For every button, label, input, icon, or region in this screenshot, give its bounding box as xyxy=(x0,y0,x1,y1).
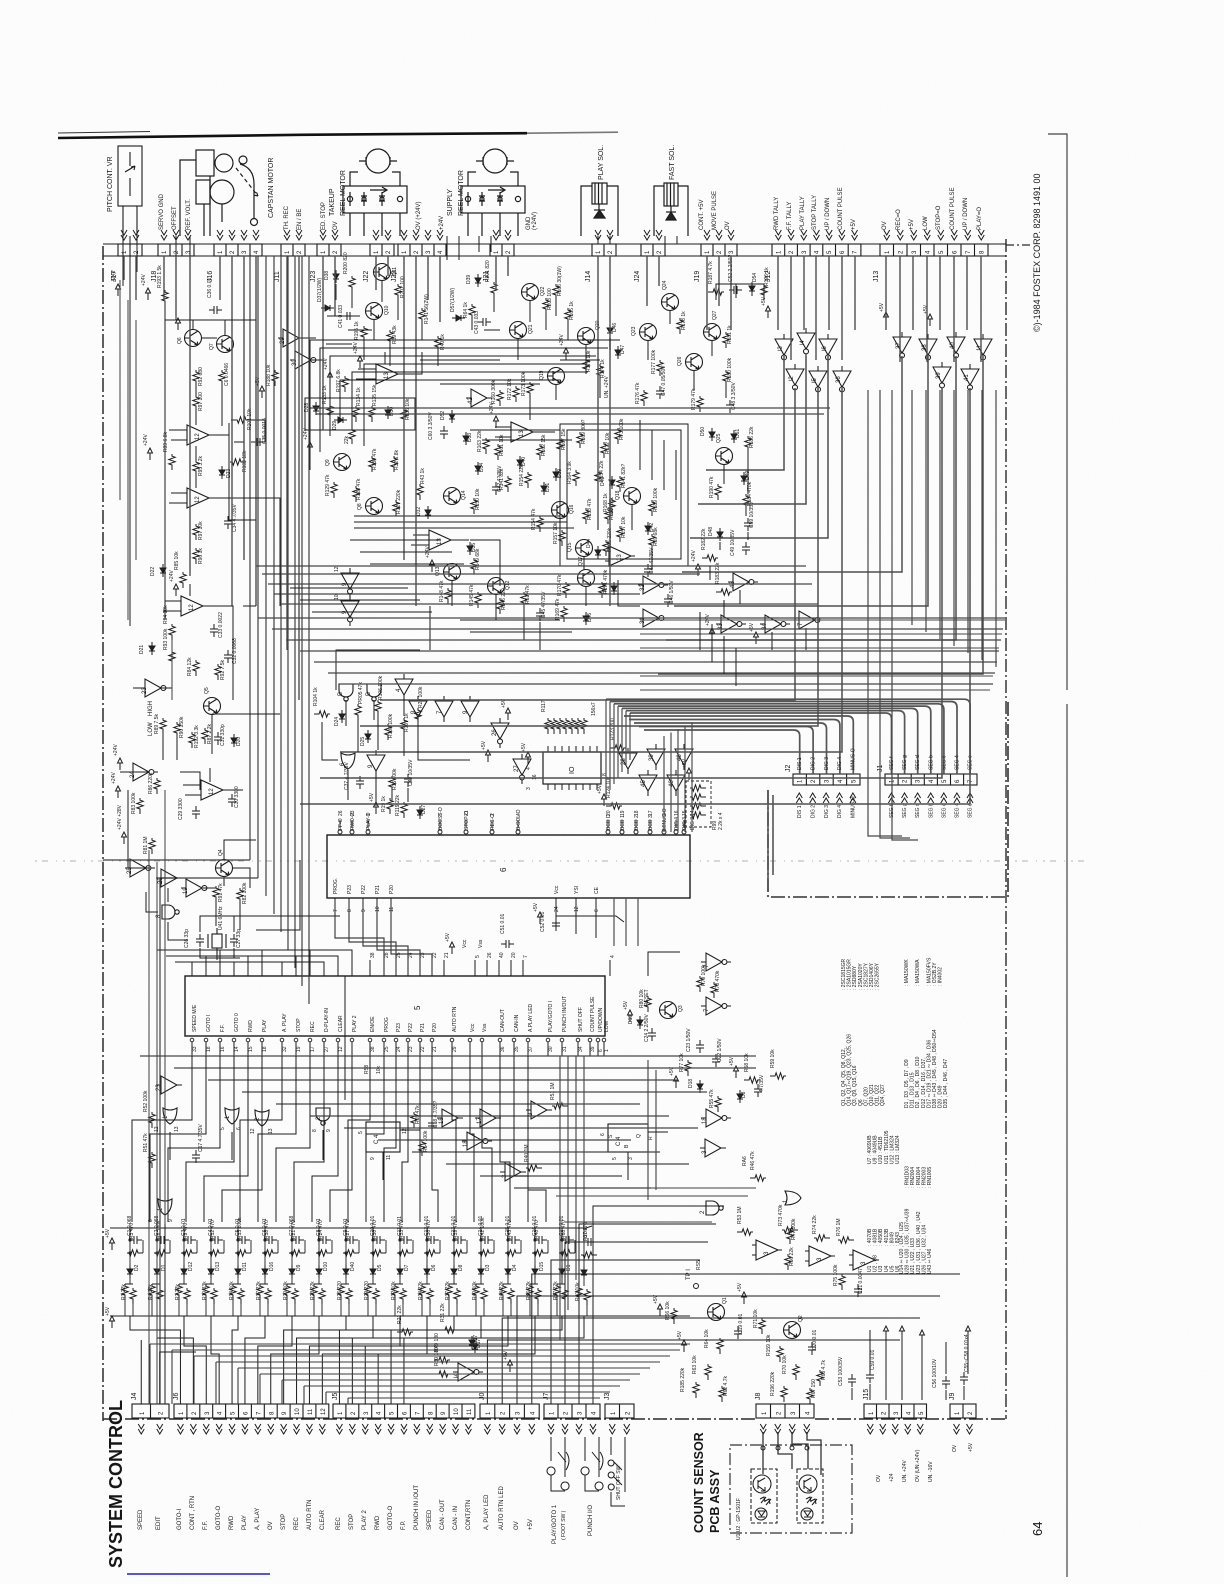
wire xyxy=(351,1042,353,1056)
wire IC pin xyxy=(561,746,563,752)
wire hband xyxy=(242,1091,707,1093)
svg-text:F.F. TALLY: F.F. TALLY xyxy=(787,202,793,230)
resistor R172 10k xyxy=(513,386,519,402)
connector J9 pin 1 arrow xyxy=(954,1424,960,1434)
resistor R44 22k a xyxy=(500,1284,506,1300)
wire seg feed xyxy=(629,713,631,760)
wire array-conn xyxy=(184,1316,206,1404)
wire xyxy=(383,1042,385,1056)
connector J7 pin 2 arrow xyxy=(562,1424,568,1434)
resistor R10 33k a xyxy=(203,1284,209,1300)
or gate U1c xyxy=(785,1191,801,1205)
svg-text:+5V: +5V xyxy=(445,932,451,942)
wire column xyxy=(557,1228,575,1316)
wire xyxy=(224,840,256,860)
svg-text:R170 47k: R170 47k xyxy=(557,574,563,596)
svg-text:15: 15 xyxy=(248,1046,254,1052)
wire spine xyxy=(265,256,267,896)
svg-text:R179 47k: R179 47k xyxy=(691,388,697,410)
wire tally xyxy=(706,356,784,470)
resistor R157 10k xyxy=(559,530,565,546)
wire xyxy=(351,820,353,828)
wire drop xyxy=(706,256,708,330)
connector J0 pin 1 arrow xyxy=(484,1424,490,1434)
svg-text:PUNCH IN/OUT: PUNCH IN/OUT xyxy=(562,996,568,1032)
svg-text:C43 0.033: C43 0.033 xyxy=(474,311,480,334)
resistor R127 220k xyxy=(393,500,399,516)
buffer U3c xyxy=(500,1163,526,1181)
svg-text:40: 40 xyxy=(950,342,956,349)
svg-text:FF-O: FF-O xyxy=(338,818,344,830)
connector J14 xyxy=(592,244,616,256)
svg-text:Q23: Q23 xyxy=(631,326,637,336)
diode D29 xyxy=(334,417,347,423)
svg-text:5: 5 xyxy=(220,1127,226,1130)
wire drop xyxy=(189,256,191,576)
power arrow xyxy=(966,1326,971,1338)
buffer U40 xyxy=(947,332,965,362)
svg-text:PROG: PROG xyxy=(384,1017,390,1032)
connector J21 pin 1 arrow xyxy=(493,230,499,240)
svg-text:+24V: +24V xyxy=(439,216,445,230)
wire xyxy=(437,352,439,366)
svg-text:6: 6 xyxy=(600,1133,606,1136)
wire IC pin xyxy=(582,784,584,790)
wire xyxy=(334,898,336,916)
connector J7 pin 1 arrow xyxy=(548,1424,554,1434)
capacitor C33 0.0022 (PPE) xyxy=(210,624,218,637)
svg-text:: RN1005: : RN1005 xyxy=(927,1167,933,1188)
svg-text:23: 23 xyxy=(408,1046,414,1052)
svg-text:PLAY 2: PLAY 2 xyxy=(362,1510,368,1530)
svg-text:D46: D46 xyxy=(612,323,618,332)
svg-text:R63 10k: R63 10k xyxy=(692,1355,698,1374)
capacitor C30 3300 xyxy=(228,794,236,807)
svg-text:R81 1M: R81 1M xyxy=(143,836,149,854)
wire xyxy=(363,342,365,360)
svg-text:AUTO RTN: AUTO RTN xyxy=(452,1006,458,1032)
wire drop xyxy=(646,256,648,306)
resistor R64 10k xyxy=(717,1338,723,1354)
connector J13 pin 4 arrow xyxy=(924,230,930,240)
wire cpu-array xyxy=(500,1056,510,1222)
wire ff xyxy=(383,1130,668,1180)
wire lcv xyxy=(127,300,129,620)
resistor C6 0.0466 xyxy=(219,370,225,386)
svg-text:25: 25 xyxy=(396,952,402,958)
resistor R47 22k a xyxy=(554,1284,560,1300)
svg-text:C 4: C 4 xyxy=(616,1136,622,1146)
wire xyxy=(609,960,611,976)
IC U10 4511 (7-seg decoder) xyxy=(543,752,601,784)
resistor R49 180 xyxy=(434,1357,450,1363)
svg-text:+5V: +5V xyxy=(737,1282,743,1292)
wire array-conn xyxy=(232,1316,238,1404)
transistor Q12 xyxy=(488,578,505,595)
svg-text:J14: J14 xyxy=(585,271,592,282)
svg-text:5: 5 xyxy=(438,813,444,816)
wire rcv2 xyxy=(648,1060,656,1200)
connector J8 xyxy=(756,1404,814,1418)
wire xyxy=(203,606,233,700)
resistor R20 10k xyxy=(292,1288,298,1304)
svg-text:R196 220k: R196 220k xyxy=(770,1371,776,1396)
wire drop xyxy=(219,256,221,300)
svg-text:A.PLAY LED: A.PLAY LED xyxy=(528,1003,534,1032)
resistor R134 1k xyxy=(353,406,359,422)
capacitor C11 0.01 xyxy=(399,1236,412,1244)
resistor R94 10k xyxy=(169,624,175,640)
svg-text:D38: D38 xyxy=(324,271,330,280)
capacitor C59 10/35V xyxy=(744,518,752,531)
wire xyxy=(451,580,453,606)
wire rv xyxy=(911,390,913,625)
svg-text:17: 17 xyxy=(310,1046,316,1052)
connector J12 pin 4 arrow xyxy=(813,230,819,240)
wire xyxy=(474,960,476,976)
transistor Q20 xyxy=(578,328,595,345)
wire xyxy=(205,1042,207,1056)
wire ic5 feed xyxy=(184,950,310,976)
svg-text:10k: 10k xyxy=(376,1065,382,1074)
svg-text:+5V: +5V xyxy=(503,1350,509,1360)
connector J21 pin 2 arrow xyxy=(505,230,511,240)
wire IC pin xyxy=(589,784,591,790)
op-amp U13d xyxy=(605,546,635,566)
wire tally xyxy=(658,356,983,674)
wire xyxy=(709,566,711,580)
wire rv2 xyxy=(868,390,902,836)
wire hband xyxy=(480,1175,622,1177)
wire cpu-array xyxy=(452,1056,456,1222)
svg-text:19: 19 xyxy=(296,1046,302,1052)
wire xyxy=(348,898,350,916)
wire umh xyxy=(272,628,1003,630)
svg-text:R40 10k: R40 10k xyxy=(575,1282,581,1301)
svg-text:12: 12 xyxy=(574,906,580,912)
power +24V xyxy=(696,564,701,576)
wire xyxy=(373,700,375,720)
buffer U34 xyxy=(760,615,790,633)
buffer U17 xyxy=(475,1109,501,1127)
wire xyxy=(523,608,525,640)
svg-text:C52 0.01: C52 0.01 xyxy=(540,911,546,932)
svg-text:21: 21 xyxy=(464,810,470,816)
svg-text:9: 9 xyxy=(370,1157,376,1160)
wire xyxy=(649,820,651,828)
op-amp U12c xyxy=(177,596,207,616)
svg-text:2.2k x 4: 2.2k x 4 xyxy=(718,812,724,830)
svg-text:R68 4.7k: R68 4.7k xyxy=(821,1359,827,1380)
resistor R173 100k xyxy=(527,382,533,398)
buffer U27 xyxy=(491,718,509,748)
diode D1 xyxy=(581,1266,587,1279)
wire xyxy=(470,540,500,586)
diode D25 xyxy=(365,730,371,743)
op-amp U12f xyxy=(805,1246,835,1266)
resistor R87 2.2k xyxy=(202,728,208,744)
svg-text:B: B xyxy=(338,692,344,696)
wire IC pin xyxy=(554,784,556,790)
svg-text:5: 5 xyxy=(358,1131,364,1134)
diode D38 xyxy=(333,270,339,283)
svg-text:SEG b: SEG b xyxy=(928,755,934,770)
capacitor C19 0.01 xyxy=(734,1326,742,1339)
connector J6 pin 12 arrow xyxy=(319,1424,325,1434)
svg-text:D40: D40 xyxy=(521,457,527,466)
svg-text:BCD 1: BCD 1 xyxy=(620,815,626,830)
svg-text:9: 9 xyxy=(168,1219,174,1222)
transistor Q18 xyxy=(624,488,641,505)
resistor R104 1k xyxy=(314,711,330,717)
wire xyxy=(431,960,433,976)
diode D11 xyxy=(235,1265,241,1278)
wire xyxy=(312,611,432,613)
wire xyxy=(351,292,353,308)
buffer U23b xyxy=(156,1076,182,1094)
svg-text:R: R xyxy=(648,1136,654,1140)
nand gate U8c xyxy=(367,684,381,701)
wire seg feed xyxy=(609,702,611,791)
wire xyxy=(191,1042,193,1056)
svg-text:TAKEUP: TAKEUP xyxy=(329,188,336,216)
capacitor C17 4.7/35V xyxy=(192,1150,200,1163)
wire xyxy=(336,650,420,690)
connector J3 xyxy=(605,1404,634,1418)
wire column xyxy=(395,1228,413,1316)
svg-text:R59 68k: R59 68k xyxy=(653,527,659,546)
connector J8 pin 3 arrow xyxy=(789,1424,795,1434)
svg-text:+24V +28V: +24V +28V xyxy=(117,804,123,830)
buffer U45 xyxy=(639,770,657,796)
transistor Q9 xyxy=(334,454,351,471)
svg-text:D16: D16 xyxy=(269,1262,275,1271)
svg-text:D35 , D44 , D46 , D47: D35 , D44 , D46 , D47 xyxy=(943,1059,949,1108)
svg-text:GOTO-O: GOTO-O xyxy=(388,1505,394,1530)
svg-text:D24: D24 xyxy=(334,717,340,726)
wire xyxy=(665,236,677,244)
svg-text:8: 8 xyxy=(602,773,608,776)
connector J15 pin 2 arrow xyxy=(880,1424,886,1434)
svg-text:RWD: RWD xyxy=(248,1020,254,1032)
resistor R119 xyxy=(557,718,563,734)
svg-text:OV: OV xyxy=(514,1521,520,1530)
wire J7 up xyxy=(579,1224,716,1404)
wire column xyxy=(314,1228,332,1316)
svg-text:R201 820: R201 820 xyxy=(485,260,491,282)
wire drop xyxy=(966,256,968,330)
resistor R119 22k xyxy=(401,802,407,818)
resistor R193 1.5k xyxy=(162,290,168,306)
resistor R23 22k a xyxy=(311,1284,317,1300)
wire xyxy=(439,820,441,828)
connector J17 xyxy=(118,244,142,256)
wire xyxy=(411,535,469,545)
wires J8 to sensors xyxy=(763,1432,821,1475)
power +5V xyxy=(928,314,933,326)
wire drop xyxy=(298,256,300,700)
svg-text:GOTO I: GOTO I xyxy=(206,1015,212,1032)
wire xyxy=(377,716,379,750)
wire xyxy=(389,346,391,366)
wire xyxy=(716,284,764,300)
resistor R30 470 xyxy=(370,1250,386,1256)
diode D9 xyxy=(289,1265,295,1278)
power +5V xyxy=(260,386,265,398)
IC U6 pin 3 (MINUS-O) xyxy=(662,830,666,834)
wire J17 feed xyxy=(130,236,177,626)
resistor R19 1k xyxy=(387,798,393,814)
connector J16 pin 1 arrow xyxy=(217,230,223,240)
svg-text:CLEAR: CLEAR xyxy=(338,1015,344,1032)
connector J12 xyxy=(772,244,861,256)
svg-text:J11: J11 xyxy=(274,271,281,282)
blue underline mark xyxy=(127,1573,270,1575)
wire xyxy=(548,371,588,373)
resistor R67 150 xyxy=(807,1388,813,1404)
wire lcv xyxy=(148,850,150,1404)
wire hband xyxy=(276,1103,640,1105)
diode D4 xyxy=(505,1265,511,1278)
svg-text:28: 28 xyxy=(384,952,390,958)
svg-text:C56 100/10V: C56 100/10V xyxy=(932,1358,938,1388)
wire hband xyxy=(378,1139,631,1141)
resistor R41 22k xyxy=(584,1289,590,1305)
wire stair xyxy=(238,1368,650,1404)
wire stair xyxy=(150,1344,690,1404)
svg-text:31: 31 xyxy=(562,1046,568,1052)
wire xyxy=(529,398,531,420)
resistor R135 15k xyxy=(369,406,375,422)
power +5V xyxy=(674,1076,679,1088)
resistor R33 470 xyxy=(397,1250,413,1256)
wire xyxy=(339,820,341,828)
connector J6 pin 4 arrow xyxy=(216,1424,222,1434)
svg-text:AUTO RTN LED: AUTO RTN LED xyxy=(499,1486,505,1530)
wire vcc link xyxy=(556,916,596,938)
svg-text:R154 47k: R154 47k xyxy=(531,508,537,530)
wire xyxy=(498,960,500,976)
transistor Q3 xyxy=(660,1002,677,1019)
resistor R40 10k a xyxy=(473,1284,479,1300)
wire gate out xyxy=(170,1130,323,1164)
power +24V xyxy=(174,584,179,596)
wire xtal xyxy=(200,948,240,960)
diode D39 xyxy=(475,274,481,287)
resistor R141 82k xyxy=(505,476,511,492)
transistor Q23 xyxy=(640,324,657,341)
wire prog link xyxy=(363,916,408,960)
svg-text:R168 1k: R168 1k xyxy=(603,493,609,512)
wire spine xyxy=(301,256,303,986)
wire xyxy=(555,300,557,316)
svg-text:R66 10k: R66 10k xyxy=(665,1301,671,1320)
svg-text:D4: D4 xyxy=(512,1264,518,1271)
wire xyxy=(383,960,385,976)
wire xyxy=(481,1042,483,1056)
svg-text:Q5: Q5 xyxy=(204,687,210,694)
svg-text:D31: D31 xyxy=(545,483,551,492)
capacitor C35 0.0015 xyxy=(252,438,265,446)
connector J16 pin 3 arrow xyxy=(241,230,247,240)
capacitor C24 2.2/50V xyxy=(648,1028,656,1041)
wire rv xyxy=(995,390,997,667)
wire cpu-array xyxy=(470,1056,474,1222)
svg-text:R177 100k: R177 100k xyxy=(651,349,657,374)
svg-text:7: 7 xyxy=(523,955,529,958)
svg-text:J15: J15 xyxy=(863,1389,870,1400)
svg-text:19: 19 xyxy=(620,810,626,816)
svg-text:J24: J24 xyxy=(634,271,641,282)
svg-text:R85 10k: R85 10k xyxy=(174,551,180,570)
svg-text:37: 37 xyxy=(896,342,902,349)
svg-text:D50: D50 xyxy=(700,427,706,436)
svg-text:PLAY 2: PLAY 2 xyxy=(352,1015,358,1032)
svg-text:R166 30(1W): R166 30(1W) xyxy=(557,266,563,296)
resistor R106 100k xyxy=(375,700,381,716)
svg-text:STOP TALLY: STOP TALLY xyxy=(812,195,818,230)
display pcb outline (dash-dot) xyxy=(768,700,1008,897)
wire rv xyxy=(981,390,983,660)
wire xyxy=(471,320,473,330)
wire xyxy=(440,383,540,385)
wire xyxy=(675,450,677,500)
svg-text:PLAY SOL.: PLAY SOL. xyxy=(598,145,605,180)
capacitor C29 3300 xyxy=(192,806,200,819)
IC U6 8243 I/O expander xyxy=(327,835,690,898)
resistor R9 470 xyxy=(181,1250,197,1256)
resistor R190 47k xyxy=(715,484,721,500)
resistor R4 22k xyxy=(157,1288,163,1304)
wire seg feed xyxy=(617,706,619,778)
scan artifact dotted fold line xyxy=(35,860,1090,862)
transistor Q15 xyxy=(576,540,593,557)
wire xyxy=(326,343,352,345)
wire spine xyxy=(308,256,310,1004)
svg-text:C24 2.2/50V: C24 2.2/50V xyxy=(644,1014,650,1042)
wire: top connector rail xyxy=(103,244,1006,256)
resistor R17 22k a xyxy=(257,1284,263,1300)
wire drop xyxy=(828,256,830,330)
resistor R7 22k a xyxy=(176,1284,182,1300)
wire xyxy=(373,319,375,340)
svg-text:33: 33 xyxy=(192,1046,198,1052)
svg-text:Vcc: Vcc xyxy=(554,885,560,894)
wire drop xyxy=(953,256,955,362)
svg-text:R70 10k: R70 10k xyxy=(782,1355,788,1374)
svg-text:R55 47k: R55 47k xyxy=(709,1089,715,1108)
svg-text:23: 23 xyxy=(350,810,356,816)
flip-flop U4a (C4) xyxy=(366,1122,400,1152)
power +5V xyxy=(884,312,889,324)
capacitor C7 0.068 xyxy=(291,1236,304,1244)
resistor R148 47k xyxy=(445,588,451,604)
connector J4 xyxy=(132,1404,169,1418)
wire xyxy=(723,600,725,616)
svg-text:R203 100: R203 100 xyxy=(547,288,553,310)
diode D35 xyxy=(467,542,473,555)
wire xyxy=(577,1042,579,1056)
nand gate U8b xyxy=(339,684,353,701)
buffer Ul6 xyxy=(819,334,837,364)
wire spine xyxy=(287,256,289,950)
diode D37 (1/2W) xyxy=(321,305,334,311)
wire IC pin xyxy=(568,746,570,752)
IC U6 pin 4 (B-SOL-O) xyxy=(516,830,520,834)
wire xyxy=(517,338,519,360)
resistor R187 4.7k xyxy=(708,289,724,295)
connector J6 pin 10 arrow xyxy=(294,1424,300,1434)
